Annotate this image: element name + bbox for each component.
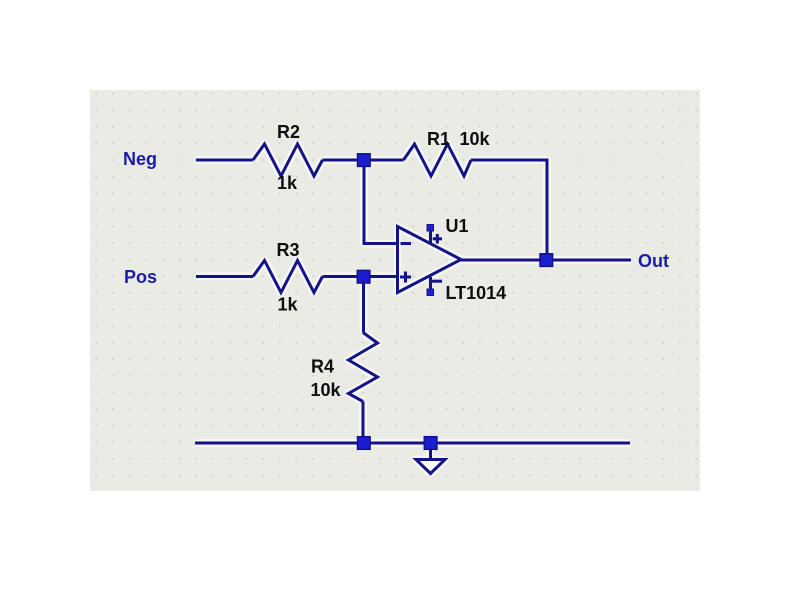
wire R2 to node A bbox=[323, 159, 361, 162]
resistor R2 bbox=[253, 144, 323, 176]
svg-text:10k: 10k bbox=[460, 129, 491, 149]
svg-text:R3: R3 bbox=[277, 240, 300, 260]
junction node output bbox=[540, 254, 553, 267]
svg-text:R4: R4 bbox=[311, 357, 334, 377]
wire node B down to R4 bbox=[362, 282, 365, 333]
ground symbol bbox=[416, 449, 445, 474]
wire node A to R1 bbox=[368, 159, 404, 162]
svg-text:R1: R1 bbox=[427, 129, 450, 149]
wire output node to Out bbox=[550, 259, 631, 262]
wire node A down to inverting input bbox=[364, 165, 399, 244]
wire halo (jpeg glow) bbox=[195, 144, 631, 474]
junction node A (R2/R1/inverting input) bbox=[358, 154, 371, 167]
op-amp V- power pin bbox=[429, 277, 432, 291]
op-amp V- minus symbol bbox=[432, 280, 443, 283]
wire R3 to node B bbox=[323, 275, 361, 278]
op-amp non-inverting input plus symbol bbox=[400, 272, 411, 283]
wire Pos lead bbox=[196, 275, 253, 278]
svg-text:1k: 1k bbox=[277, 173, 298, 193]
svg-text:U1: U1 bbox=[446, 216, 469, 236]
op-amp V+ power pin bbox=[429, 228, 432, 244]
svg-text:LT1014: LT1014 bbox=[446, 283, 507, 303]
op-amp V+ pin square bbox=[427, 225, 434, 232]
resistor R1 bbox=[404, 144, 472, 176]
wire R4 to ground rail bbox=[362, 402, 365, 444]
wire node B to non-inverting input bbox=[368, 275, 398, 278]
schematic canvas background bbox=[90, 90, 700, 491]
svg-text:10k: 10k bbox=[311, 380, 342, 400]
svg-text:Pos: Pos bbox=[124, 267, 157, 287]
op-amp V- pin square bbox=[427, 289, 434, 296]
wire op-amp output bbox=[460, 259, 540, 262]
op-amp U1 body bbox=[398, 227, 462, 293]
junction node C (R4/ground rail) bbox=[358, 437, 371, 450]
wire R1 to feedback corner bbox=[471, 160, 547, 256]
svg-text:1k: 1k bbox=[278, 295, 299, 315]
junction node B (R3/R4/non-inverting input) bbox=[357, 270, 370, 283]
svg-text:Neg: Neg bbox=[123, 149, 157, 169]
op-amp V+ plus symbol bbox=[433, 234, 442, 244]
svg-text:R2: R2 bbox=[277, 122, 300, 142]
op-amp inverting input minus symbol bbox=[401, 242, 412, 245]
resistor R3 bbox=[253, 261, 323, 293]
ground pin square bbox=[424, 437, 437, 450]
wire Neg lead bbox=[196, 159, 253, 162]
wire ground rail bbox=[195, 442, 630, 445]
resistor R4 bbox=[349, 333, 378, 402]
svg-text:Out: Out bbox=[638, 251, 669, 271]
